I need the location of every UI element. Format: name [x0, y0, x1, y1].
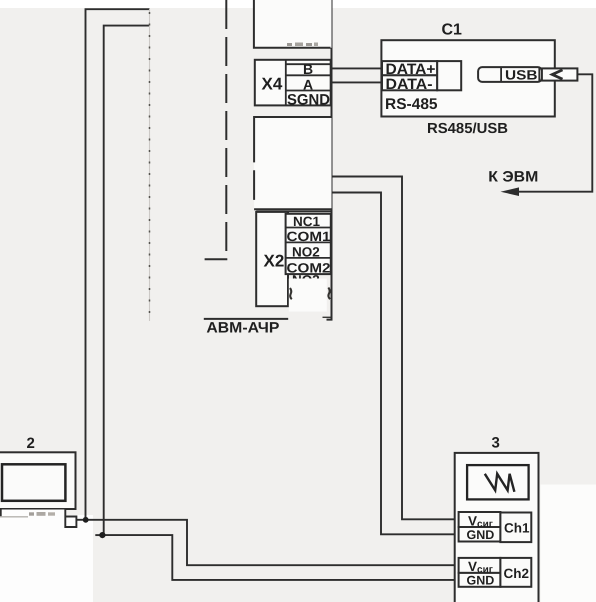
scan page white corner right [541, 485, 596, 602]
device 2 lower compartment [0, 510, 65, 518]
arrowhead to computer [501, 187, 520, 196]
svg-text:NC1: NC1 [293, 214, 320, 229]
wire stub left of junction B [95, 534, 103, 536]
Ch1 Vsig terminal box [459, 512, 501, 527]
svg-text:RS-485: RS-485 [385, 96, 438, 113]
X2 block top edge [256, 210, 331, 212]
erased glyph remnant right [328, 288, 330, 300]
terminal NO2/COM2 divider [286, 257, 331, 259]
wire module to Ch1 Vsig [332, 177, 456, 520]
module АВМ-АЧР dashed boundary [225, 0, 227, 259]
svg-text:SGND: SGND [287, 91, 330, 108]
svg-text:B: B [303, 61, 313, 77]
svg-text:X4: X4 [262, 75, 283, 94]
module middle box [254, 117, 331, 209]
white top scan strip [0, 0, 596, 8]
device 2 faded terminal text [29, 512, 34, 515]
USB plug tip [542, 68, 578, 80]
svg-text:3: 3 [492, 434, 500, 451]
wire USB to computer [518, 74, 592, 191]
device 2 lower strip faint line [0, 516, 28, 518]
terminal B box [286, 63, 332, 65]
terminal COM1/NO2 divider [286, 241, 331, 243]
module right edge [327, 0, 332, 320]
device 2 terminal notch [65, 509, 76, 527]
waveform sawtooth icon [485, 474, 515, 492]
USB plug divider right [538, 67, 540, 82]
X4 label divider [285, 60, 287, 106]
connector X4 block [255, 60, 331, 106]
USB plug body [478, 67, 542, 82]
erased glyph remnant left [290, 288, 292, 299]
Ch1 box [500, 513, 531, 543]
wire A to DATA- [332, 81, 383, 83]
wire net1: device1 to junction A to Ch2 Vsig [86, 9, 456, 565]
svg-text:DATA-: DATA- [386, 76, 433, 93]
junction B [99, 532, 105, 538]
device 2 screen [2, 464, 65, 501]
DATA spare cell [437, 61, 461, 90]
device 3 waveform window [467, 465, 528, 499]
svg-text:COM2: COM2 [287, 260, 331, 275]
wire device2 to junction A [76, 519, 86, 521]
svg-text:NO2: NO2 [292, 244, 320, 259]
terminal A/SGND divider [286, 90, 332, 92]
wire module to Ch1 GND [332, 193, 456, 535]
svg-text:GND: GND [467, 574, 495, 588]
Ch2 GND terminal box [459, 573, 501, 587]
module boundary hook [205, 258, 228, 260]
terminal NC1/COM1 divider [286, 227, 331, 229]
partial erased row NO3 [292, 273, 320, 288]
converter C1 box [381, 40, 554, 116]
wire B to DATA+ [332, 67, 383, 69]
scan page white corner left [0, 515, 93, 602]
USB plug divider left [500, 67, 502, 82]
DATA+ box [382, 61, 437, 75]
wire net2: device1 to junction B to Ch2 GND [104, 26, 456, 580]
USB tip chevron [552, 70, 562, 79]
device 2 lower strip left edge [0, 509, 2, 517]
connector X2 label box [256, 212, 288, 306]
top box faded marks [287, 43, 292, 46]
Ch1 GND terminal box [459, 527, 501, 542]
svg-text:GND: GND [467, 528, 495, 542]
svg-text:COM1: COM1 [287, 229, 332, 244]
erased area white-out [289, 279, 327, 312]
Ch2 Vsig terminal box [459, 558, 501, 573]
device 2 box [0, 452, 76, 509]
label АВМ-АЧР overline [204, 318, 288, 320]
module top box [254, 0, 332, 48]
svg-text:A: A [303, 76, 313, 92]
X2 terminal column top edge [286, 214, 331, 274]
Ch2 box [500, 558, 531, 587]
svg-text:2: 2 [27, 435, 35, 452]
junction A [83, 517, 89, 523]
DATA- box [382, 75, 437, 90]
svg-text:Ch2: Ch2 [504, 566, 530, 581]
device 1 faded edge (dotted vertical) [149, 9, 151, 321]
svg-text:АВМ-АЧР: АВМ-АЧР [206, 320, 279, 337]
svg-text:Ch1: Ch1 [504, 520, 530, 535]
svg-text:USB: USB [505, 67, 538, 82]
svg-text:C1: C1 [442, 22, 463, 39]
module bottom remnant segment [323, 316, 331, 318]
svg-text:К ЭВМ: К ЭВМ [488, 169, 538, 186]
svg-text:X2: X2 [264, 252, 285, 271]
device 3 box [455, 453, 539, 602]
terminal B/A divider [286, 74, 332, 76]
svg-text:RS485/USB: RS485/USB [427, 121, 508, 137]
